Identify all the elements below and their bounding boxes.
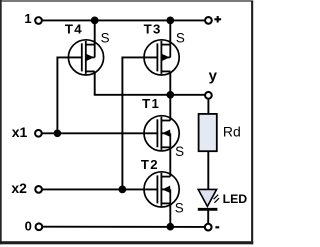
junction dot x2 to T3 gate: [119, 186, 127, 194]
terminal x1: [35, 130, 42, 137]
junction dot node y: [166, 91, 174, 99]
wire top rail (node 1 / +): [42, 19, 204, 21]
transistor T3 (PMOS): [144, 40, 179, 75]
wire T4 drain lead: [94, 71, 96, 94]
frame bottom edge: [0, 241, 253, 244]
terminal 1: [35, 17, 42, 24]
wire x2 row: [42, 188, 157, 190]
wire T4 gate riser: [57, 57, 81, 133]
junction dot top rail at T3 source: [166, 17, 174, 25]
svg-text:S: S: [176, 31, 185, 46]
label -: [215, 226, 219, 228]
wire node y horizontal: [94, 94, 205, 96]
wire bottom rail (node 0 / -): [43, 226, 205, 228]
svg-text:1: 1: [24, 11, 31, 26]
svg-text:S: S: [175, 201, 184, 216]
terminal x2: [35, 186, 42, 193]
terminal 0: [36, 223, 43, 230]
terminal y: [205, 92, 212, 99]
frame left edge: [0, 0, 2, 244]
junction dot top rail at T4 source: [91, 17, 99, 25]
terminal -: [205, 224, 212, 231]
wire y terminal to Rd: [207, 99, 209, 114]
wire T3 gate riser: [122, 57, 157, 189]
junction dot x1 to T4 gate: [54, 129, 62, 137]
LED D1: [198, 189, 219, 209]
wire LED to minus terminal: [207, 211, 209, 224]
terminal +: [205, 17, 212, 24]
wire T3 source lead: [169, 20, 171, 44]
transistor T4 (PMOS): [68, 40, 103, 75]
svg-text:S: S: [175, 144, 184, 159]
svg-text:y: y: [209, 67, 218, 84]
wire T2 source lead: [169, 203, 171, 226]
svg-text:S: S: [101, 31, 110, 46]
svg-text:T2: T2: [141, 157, 159, 172]
svg-text:x1: x1: [12, 124, 28, 140]
resistor Rd: [199, 114, 217, 151]
svg-text:T1: T1: [142, 96, 160, 111]
label +: [214, 16, 221, 23]
junction dot bottom rail at T2 source: [166, 223, 174, 231]
wire T1 source to T2 drain: [169, 147, 171, 176]
wire Rd to LED: [207, 151, 209, 189]
svg-text:LED: LED: [223, 192, 248, 206]
wire T1 drain lead: [169, 95, 171, 121]
svg-text:Rd: Rd: [223, 124, 241, 140]
wire x1 row: [42, 132, 157, 134]
svg-text:T4: T4: [65, 22, 83, 37]
wire T3 drain lead: [169, 71, 171, 94]
svg-text:T3: T3: [144, 22, 162, 37]
frame top edge: [0, 0, 253, 2]
frame right edge: [251, 1, 253, 244]
transistor T2 (NMOS): [144, 172, 179, 207]
wire T4 source lead: [94, 20, 96, 44]
transistor T1 (NMOS): [144, 116, 179, 151]
svg-text:0: 0: [25, 219, 32, 234]
svg-text:x2: x2: [11, 180, 27, 196]
